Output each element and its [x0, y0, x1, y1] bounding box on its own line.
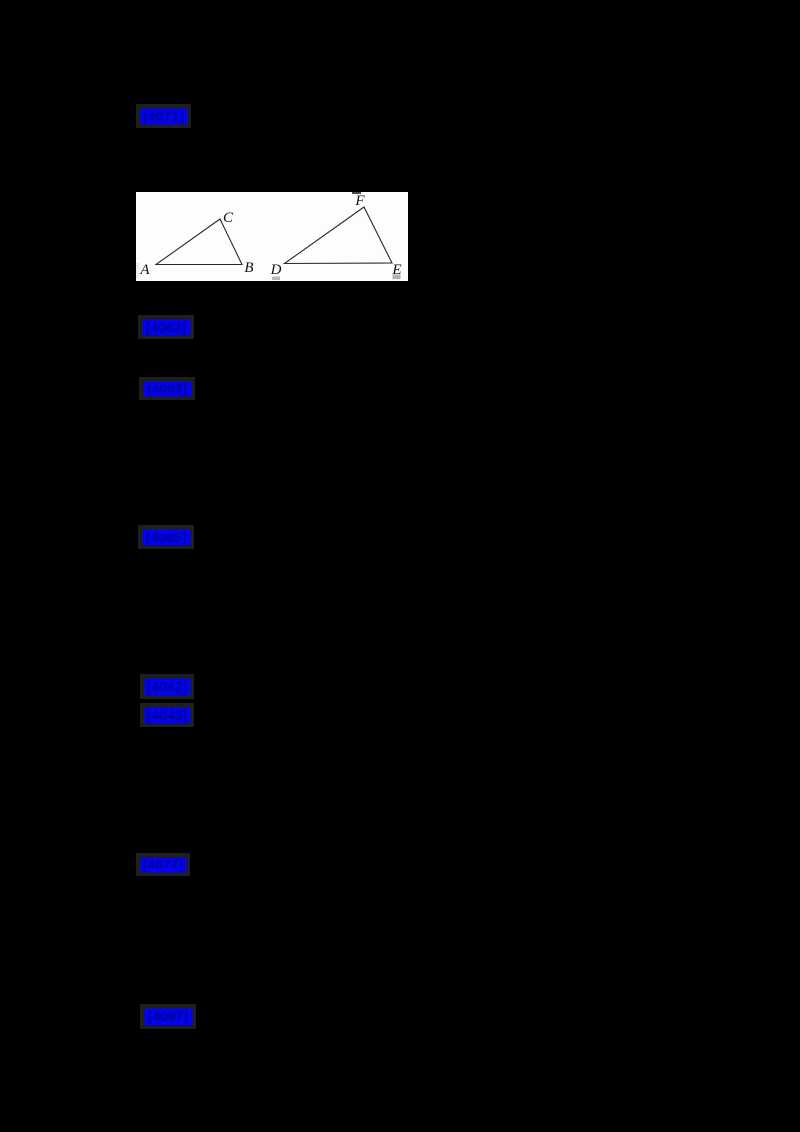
triangle DEF	[285, 207, 393, 264]
link 14043	[140, 703, 194, 727]
link 14063	[139, 377, 195, 400]
link 14097	[140, 1004, 196, 1029]
gray tick below E	[393, 275, 401, 280]
svg-text:F: F	[354, 193, 365, 209]
link 14077	[136, 853, 190, 876]
faint mark left bottom	[136, 263, 140, 278]
link 14065	[138, 525, 194, 549]
link 14062	[138, 315, 194, 339]
figure: two similar triangles	[136, 192, 408, 281]
dark notch above F	[352, 192, 361, 194]
gray tick below D	[272, 277, 280, 281]
svg-text:A: A	[139, 262, 150, 278]
svg-text:B: B	[244, 260, 253, 276]
link 14042	[140, 674, 194, 699]
link 14071	[136, 104, 191, 128]
svg-text:C: C	[223, 210, 234, 226]
triangle ABC	[156, 219, 242, 265]
svg-text:D: D	[270, 262, 282, 278]
